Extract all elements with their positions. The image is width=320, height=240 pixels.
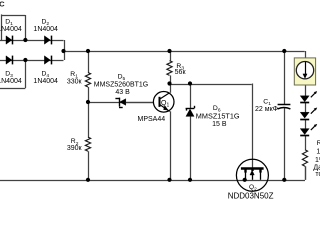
svg-text:MMSZ15T1G: MMSZ15T1G (196, 112, 240, 121)
svg-text:MPSA44: MPSA44 (138, 116, 166, 123)
svg-text:1 Ом: 1 Ом (316, 149, 320, 156)
svg-text:15 В: 15 В (212, 121, 227, 128)
svg-text:390к: 390к (67, 145, 83, 152)
svg-text:1N4004: 1N4004 (0, 78, 22, 85)
svg-text:43 В: 43 В (115, 89, 130, 96)
svg-text:MMSZ5260BT1G: MMSZ5260BT1G (94, 81, 148, 88)
svg-text:1%: 1% (315, 157, 320, 164)
svg-text:C: C (0, 0, 5, 8)
svg-text:1N4004: 1N4004 (0, 26, 22, 33)
svg-text:330к: 330к (67, 78, 83, 85)
svg-text:22 мкФ: 22 мкФ (255, 106, 278, 113)
svg-text:1N4004: 1N4004 (33, 26, 58, 33)
svg-text:56к: 56к (175, 69, 187, 76)
svg-text:1N4004: 1N4004 (33, 78, 58, 85)
svg-text:R4: R4 (317, 140, 320, 149)
svg-text:NDD03N50Z: NDD03N50Z (228, 191, 274, 200)
svg-text:тока: тока (315, 171, 320, 178)
